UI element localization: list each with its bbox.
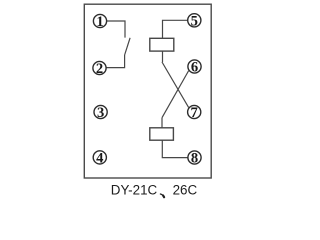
terminal 2	[93, 61, 106, 74]
svg-text:6: 6	[191, 60, 198, 76]
crossing diagonal to terminal 7	[162, 62, 189, 107]
svg-text:8: 8	[191, 151, 198, 167]
terminal 6	[188, 60, 201, 73]
svg-text:7: 7	[191, 105, 198, 121]
svg-text:4: 4	[96, 151, 104, 167]
svg-text:3: 3	[97, 105, 104, 121]
crossing diagonal from terminal 6	[162, 71, 189, 118]
svg-text:1: 1	[96, 14, 103, 30]
wire from lower coil to terminal 8	[162, 140, 194, 157]
svg-text:2: 2	[96, 61, 103, 77]
svg-text:26C: 26C	[173, 183, 198, 198]
terminal 1	[93, 14, 106, 27]
upper coil box	[150, 38, 174, 51]
terminal 5	[188, 14, 201, 27]
wire from terminal 1 to fixed contact	[100, 21, 125, 38]
svg-text:DY-21C: DY-21C	[111, 183, 158, 198]
terminal 8	[188, 151, 201, 164]
wire from terminal 5 to upper coil	[163, 20, 195, 38]
caption ideographic comma	[160, 194, 164, 197]
terminal 4	[93, 151, 106, 164]
lower coil box	[150, 128, 174, 140]
wire from blade to terminal 2	[100, 55, 125, 68]
switch blade (open contact)	[125, 38, 131, 55]
svg-text:5: 5	[191, 13, 198, 29]
stub above lower coil	[161, 118, 163, 128]
terminal 7	[188, 105, 201, 118]
terminal 3	[94, 105, 107, 118]
stub below upper coil	[162, 51, 164, 62]
outer relay case rectangle	[84, 4, 211, 178]
